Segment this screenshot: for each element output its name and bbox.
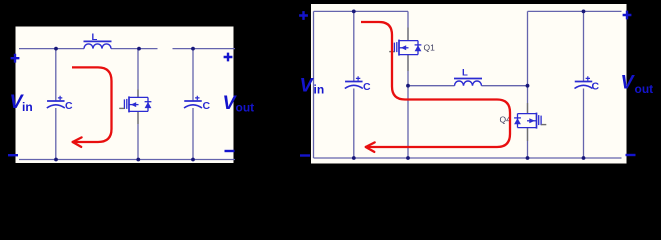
junction dot top input	[54, 47, 58, 51]
svg-text:Q1: Q1	[424, 43, 436, 53]
right circuit panel	[311, 4, 627, 164]
wire: top rail right segment	[528, 10, 622, 12]
capacitor C input (left circuit)	[47, 96, 65, 108]
wire: left rail	[313, 11, 315, 158]
svg-text:C: C	[65, 100, 73, 112]
junction dot top switch node	[137, 47, 141, 51]
wire: switch node to inductor	[408, 85, 455, 87]
junction dot bottom Q1 leg	[406, 156, 410, 160]
junction dot top input (right)	[352, 10, 356, 14]
wire: gray stubs at MOSFET	[137, 90, 139, 125]
wire: top rail left segment to Q1	[314, 10, 409, 12]
wire: output capacitor leg	[192, 49, 194, 160]
red arrowhead (right circuit)	[366, 142, 375, 152]
wire: MOSFET leg	[137, 49, 139, 160]
junction dot switch node B	[526, 84, 530, 88]
svg-text:C: C	[592, 81, 600, 93]
junction dot bottom input	[54, 158, 58, 162]
terminal plus Vin (left circuit)	[11, 54, 20, 63]
capacitor C output (left circuit)	[184, 96, 202, 108]
inductor L (left)	[84, 41, 112, 48]
svg-text:C: C	[203, 100, 211, 112]
wire: left top rail (input to inductor)	[19, 48, 84, 50]
red arrowhead (left circuit)	[73, 137, 82, 147]
junction dot bottom input cap	[352, 156, 356, 160]
wire: input capacitor leg	[55, 49, 57, 160]
svg-text:V: V	[621, 72, 636, 94]
wire: output capacitor leg (right circuit)	[583, 11, 585, 158]
wire: Q1 leg	[407, 11, 409, 158]
junction dot bottom output cap	[582, 156, 586, 160]
junction dot switch node A	[406, 84, 410, 88]
wire: gray stubs at Q4	[527, 103, 529, 141]
wire: bottom rail	[19, 159, 235, 161]
red current loop (right circuit)	[361, 22, 510, 147]
svg-text:L: L	[462, 68, 468, 79]
svg-text:in: in	[22, 100, 33, 114]
junction dot bottom Q4 leg	[526, 156, 530, 160]
MOSFET switch (left circuit)	[119, 96, 151, 112]
inductor L (right)	[454, 79, 482, 86]
wire: Q4 leg	[527, 11, 529, 158]
terminal plus Vin (right circuit)	[299, 11, 308, 20]
svg-text:C: C	[363, 81, 371, 93]
junction dot top output	[191, 47, 195, 51]
wire: top rail output segment	[173, 48, 236, 50]
terminal plus Vout (right circuit)	[623, 11, 632, 20]
svg-text:out: out	[635, 82, 654, 96]
wire: bottom rail	[314, 157, 622, 159]
junction dot bottom output	[191, 158, 195, 162]
svg-text:V: V	[300, 75, 315, 97]
MOSFET Q1	[389, 40, 421, 56]
svg-text:L: L	[92, 32, 98, 43]
junction dot top output (right)	[582, 10, 586, 14]
red current loop (left circuit)	[72, 67, 112, 142]
terminal minus Vout (right circuit)	[626, 154, 636, 156]
junction dot bottom switch	[136, 158, 140, 162]
capacitor C output (right circuit)	[575, 76, 593, 88]
terminal minus Vout (left circuit)	[225, 150, 235, 152]
capacitor C input (right circuit)	[345, 76, 363, 88]
wire: gray stubs at Q1	[407, 28, 409, 72]
wire: input capacitor leg (right circuit)	[353, 11, 355, 158]
left circuit panel	[16, 27, 234, 164]
MOSFET Q4 (mirrored)	[514, 113, 546, 129]
svg-text:in: in	[314, 83, 325, 97]
svg-text:out: out	[236, 101, 255, 115]
terminal minus Vin (right circuit)	[300, 155, 310, 157]
terminal minus Vin (left circuit)	[8, 154, 18, 156]
terminal plus Vout (left circuit)	[224, 53, 233, 62]
wire: top rail inductor to switch node	[111, 48, 158, 50]
wire: inductor to Q4 node	[482, 85, 528, 87]
